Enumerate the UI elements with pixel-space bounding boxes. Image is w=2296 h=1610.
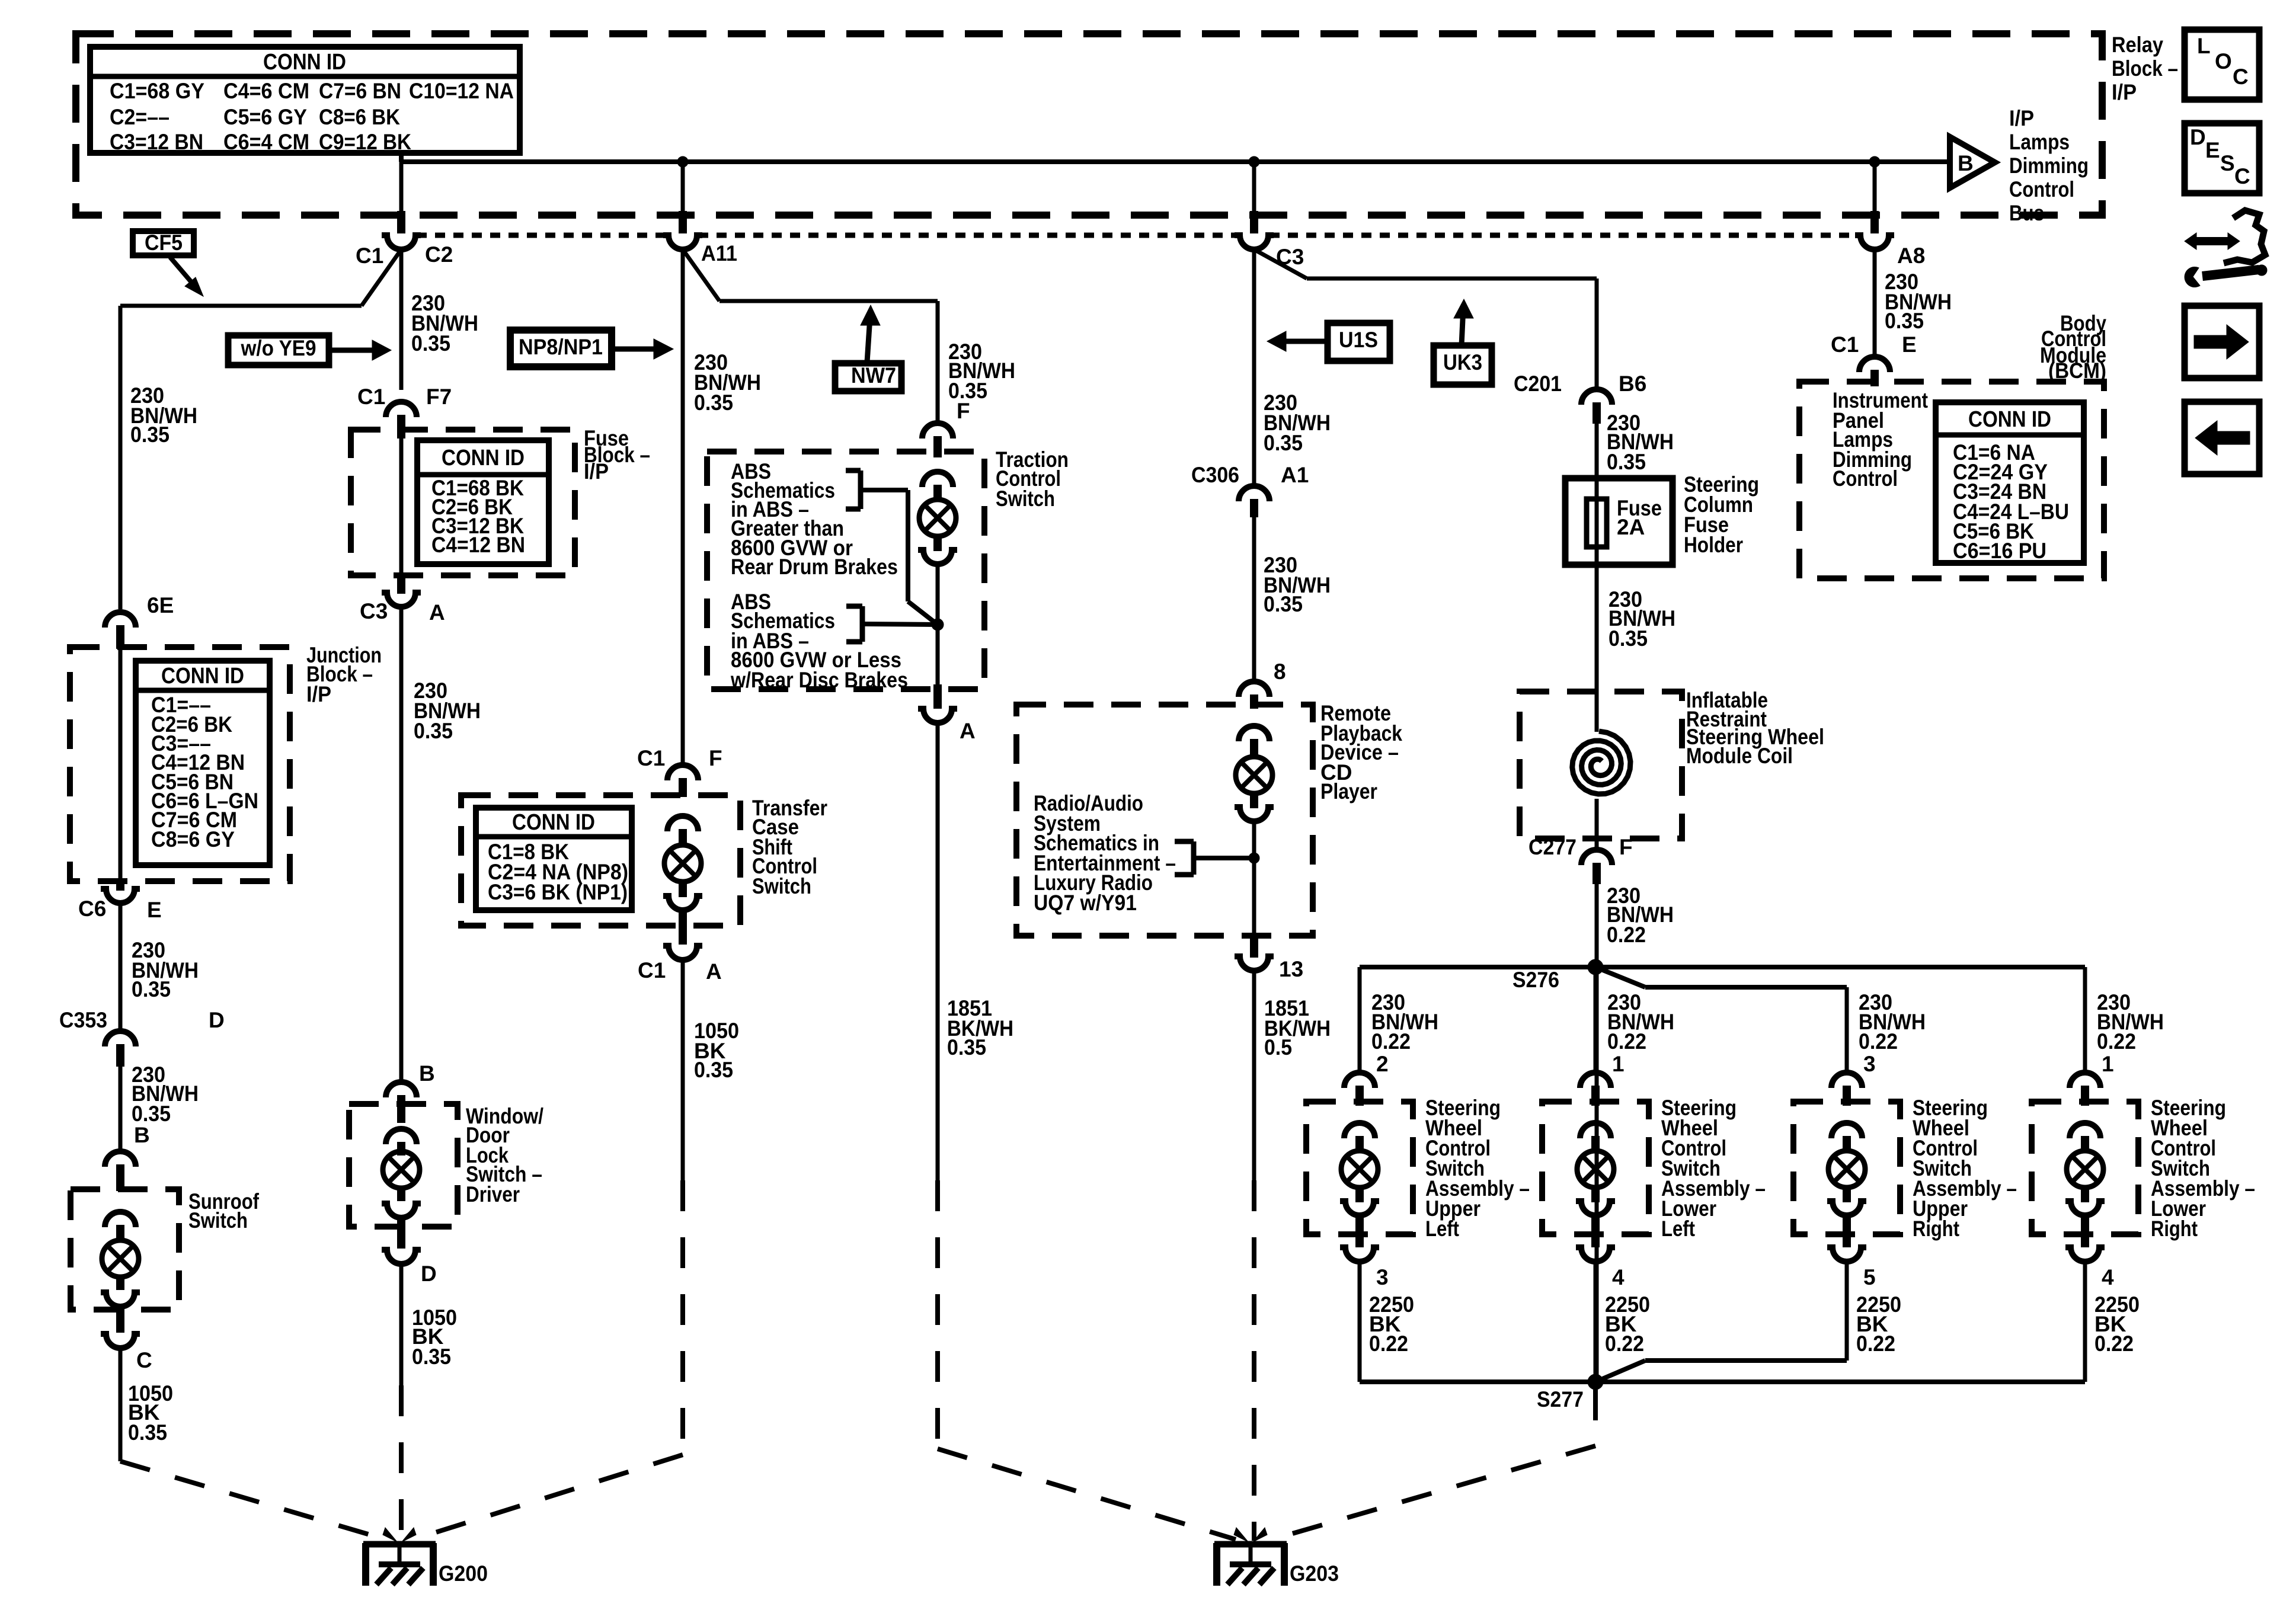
svg-text:C3=6 BK (NP1): C3=6 BK (NP1) bbox=[488, 880, 628, 904]
svg-text:D: D bbox=[209, 1008, 225, 1032]
svg-text:B: B bbox=[419, 1061, 435, 1086]
svg-text:C9=12 BK: C9=12 BK bbox=[319, 130, 411, 154]
svg-text:6E: 6E bbox=[147, 593, 174, 617]
svg-text:3: 3 bbox=[1863, 1052, 1876, 1076]
svg-text:C5=6 GY: C5=6 GY bbox=[223, 105, 307, 129]
svg-text:Rear Drum Brakes: Rear Drum Brakes bbox=[731, 555, 898, 579]
svg-text:E: E bbox=[147, 898, 162, 922]
svg-text:C201: C201 bbox=[1514, 372, 1562, 396]
svg-text:UK3: UK3 bbox=[1443, 350, 1482, 375]
svg-text:CONN ID: CONN ID bbox=[512, 810, 595, 835]
svg-text:A: A bbox=[960, 719, 976, 743]
svg-text:C6: C6 bbox=[78, 897, 106, 921]
svg-text:I/P: I/P bbox=[2009, 106, 2034, 130]
svg-text:0.22: 0.22 bbox=[1859, 1029, 1898, 1054]
svg-text:Switch: Switch bbox=[188, 1208, 248, 1233]
svg-text:CF5: CF5 bbox=[145, 231, 183, 255]
svg-text:2A: 2A bbox=[1617, 515, 1645, 539]
svg-text:4: 4 bbox=[1612, 1265, 1625, 1289]
svg-text:S276: S276 bbox=[1512, 968, 1559, 992]
svg-text:C8=6 BK: C8=6 BK bbox=[319, 105, 400, 129]
svg-text:Switch: Switch bbox=[752, 874, 811, 898]
svg-text:w/Rear Disc Brakes: w/Rear Disc Brakes bbox=[730, 668, 908, 692]
svg-text:0.35: 0.35 bbox=[1609, 626, 1648, 651]
svg-text:3: 3 bbox=[1376, 1265, 1389, 1289]
svg-text:0.22: 0.22 bbox=[1371, 1029, 1411, 1054]
svg-text:Left: Left bbox=[1661, 1217, 1695, 1241]
svg-text:0.5: 0.5 bbox=[1264, 1035, 1292, 1060]
svg-text:(BCM): (BCM) bbox=[2048, 359, 2106, 383]
svg-text:0.35: 0.35 bbox=[1264, 431, 1303, 455]
svg-text:F7: F7 bbox=[426, 385, 452, 409]
svg-text:1: 1 bbox=[2102, 1052, 2114, 1076]
svg-text:C1=68 GY: C1=68 GY bbox=[110, 79, 204, 103]
svg-text:4: 4 bbox=[2102, 1265, 2114, 1289]
svg-text:Control: Control bbox=[2009, 177, 2074, 201]
svg-text:0.35: 0.35 bbox=[947, 1035, 986, 1060]
svg-text:Module Coil: Module Coil bbox=[1686, 744, 1793, 768]
svg-text:C4=6 CM: C4=6 CM bbox=[223, 79, 309, 103]
svg-text:L: L bbox=[2197, 34, 2211, 58]
svg-text:Dimming: Dimming bbox=[2009, 153, 2089, 178]
svg-text:C7=6 BN: C7=6 BN bbox=[319, 79, 401, 103]
svg-text:A8: A8 bbox=[1897, 244, 1925, 268]
svg-text:U1S: U1S bbox=[1339, 328, 1378, 352]
svg-text:Right: Right bbox=[1913, 1217, 1959, 1241]
svg-text:C2=––: C2=–– bbox=[110, 105, 170, 129]
svg-text:0.35: 0.35 bbox=[132, 1102, 171, 1126]
svg-text:UQ7 w/Y91: UQ7 w/Y91 bbox=[1034, 891, 1137, 915]
svg-text:0.22: 0.22 bbox=[1607, 1029, 1646, 1054]
svg-text:A11: A11 bbox=[701, 241, 737, 265]
svg-text:I/P: I/P bbox=[2112, 80, 2137, 104]
svg-text:G203: G203 bbox=[1290, 1561, 1339, 1586]
svg-text:Lamps: Lamps bbox=[2009, 130, 2070, 154]
svg-text:B: B bbox=[134, 1123, 150, 1147]
svg-text:CONN ID: CONN ID bbox=[442, 446, 525, 470]
svg-text:I/P: I/P bbox=[584, 459, 609, 484]
svg-text:1: 1 bbox=[1612, 1052, 1625, 1076]
svg-text:A: A bbox=[706, 959, 722, 984]
svg-text:0.35: 0.35 bbox=[130, 422, 170, 447]
svg-text:C6=16 PU: C6=16 PU bbox=[1953, 539, 2046, 563]
svg-text:0.22: 0.22 bbox=[2094, 1331, 2134, 1356]
svg-text:w/o YE9: w/o YE9 bbox=[241, 336, 316, 360]
svg-text:C: C bbox=[2234, 164, 2250, 188]
svg-text:0.35: 0.35 bbox=[1264, 592, 1303, 616]
svg-text:C: C bbox=[136, 1348, 152, 1372]
svg-text:Relay: Relay bbox=[2112, 33, 2163, 57]
svg-text:C: C bbox=[2233, 65, 2249, 89]
svg-text:C1: C1 bbox=[1831, 332, 1859, 357]
svg-text:CONN ID: CONN ID bbox=[1968, 407, 2051, 432]
svg-text:C4=12 BN: C4=12 BN bbox=[431, 533, 525, 557]
svg-text:NP8/NP1: NP8/NP1 bbox=[519, 335, 603, 359]
svg-text:0.22: 0.22 bbox=[1607, 923, 1646, 947]
svg-text:Player: Player bbox=[1320, 779, 1377, 804]
svg-text:0.35: 0.35 bbox=[412, 1345, 451, 1369]
svg-text:C306: C306 bbox=[1191, 463, 1239, 487]
svg-text:0.35: 0.35 bbox=[1607, 450, 1646, 474]
svg-text:C353: C353 bbox=[59, 1008, 107, 1032]
svg-text:C1: C1 bbox=[357, 385, 385, 409]
svg-text:2: 2 bbox=[1376, 1052, 1389, 1076]
svg-text:0.22: 0.22 bbox=[1856, 1331, 1895, 1356]
svg-text:Driver: Driver bbox=[466, 1182, 520, 1206]
svg-text:0.22: 0.22 bbox=[2097, 1029, 2136, 1054]
svg-text:C10=12 NA: C10=12 NA bbox=[409, 79, 514, 103]
svg-text:C3=12 BN: C3=12 BN bbox=[110, 130, 203, 154]
svg-text:D: D bbox=[421, 1262, 437, 1286]
svg-text:CONN ID: CONN ID bbox=[161, 664, 244, 689]
svg-text:0.35: 0.35 bbox=[694, 391, 733, 415]
svg-text:C8=6 GY: C8=6 GY bbox=[151, 827, 235, 852]
svg-text:I/P: I/P bbox=[306, 682, 331, 706]
svg-text:E: E bbox=[1902, 332, 1917, 357]
svg-text:F: F bbox=[957, 399, 970, 423]
svg-text:0.35: 0.35 bbox=[694, 1058, 733, 1082]
svg-text:G200: G200 bbox=[439, 1561, 488, 1586]
svg-text:0.35: 0.35 bbox=[414, 719, 453, 743]
svg-text:8: 8 bbox=[1274, 660, 1286, 684]
svg-text:0.35: 0.35 bbox=[1885, 309, 1924, 333]
svg-text:C1: C1 bbox=[638, 958, 666, 982]
svg-text:Right: Right bbox=[2151, 1217, 2198, 1241]
svg-text:C1: C1 bbox=[356, 244, 383, 268]
svg-text:S277: S277 bbox=[1537, 1387, 1584, 1411]
svg-text:0.22: 0.22 bbox=[1605, 1331, 1644, 1356]
svg-text:5: 5 bbox=[1863, 1265, 1876, 1289]
svg-text:0.35: 0.35 bbox=[411, 331, 450, 356]
svg-text:C6=4 CM: C6=4 CM bbox=[223, 130, 309, 154]
svg-text:C277: C277 bbox=[1528, 835, 1576, 859]
svg-text:C1: C1 bbox=[637, 746, 665, 770]
svg-text:Block –: Block – bbox=[2112, 56, 2178, 81]
svg-text:A1: A1 bbox=[1281, 463, 1309, 487]
svg-text:Switch: Switch bbox=[996, 486, 1055, 511]
svg-text:NW7: NW7 bbox=[851, 363, 896, 388]
svg-text:Holder: Holder bbox=[1684, 533, 1743, 557]
svg-text:C3: C3 bbox=[360, 599, 388, 623]
svg-text:Bus: Bus bbox=[2009, 201, 2044, 225]
svg-text:CONN ID: CONN ID bbox=[263, 50, 346, 75]
svg-text:C2: C2 bbox=[425, 242, 453, 267]
svg-text:0.35: 0.35 bbox=[128, 1420, 167, 1445]
svg-text:0.35: 0.35 bbox=[132, 977, 171, 1001]
svg-text:0.22: 0.22 bbox=[1369, 1331, 1408, 1356]
svg-text:B: B bbox=[1958, 151, 1974, 175]
svg-text:F: F bbox=[1619, 835, 1633, 859]
svg-text:13: 13 bbox=[1279, 957, 1303, 981]
svg-text:A: A bbox=[429, 600, 445, 625]
svg-text:O: O bbox=[2215, 49, 2232, 73]
svg-text:Left: Left bbox=[1425, 1217, 1459, 1241]
svg-text:F: F bbox=[709, 746, 722, 770]
svg-text:B6: B6 bbox=[1619, 372, 1646, 396]
svg-text:S: S bbox=[2220, 151, 2235, 175]
svg-text:D: D bbox=[2190, 125, 2206, 149]
svg-text:E: E bbox=[2205, 138, 2220, 162]
svg-text:Control: Control bbox=[1833, 466, 1898, 491]
